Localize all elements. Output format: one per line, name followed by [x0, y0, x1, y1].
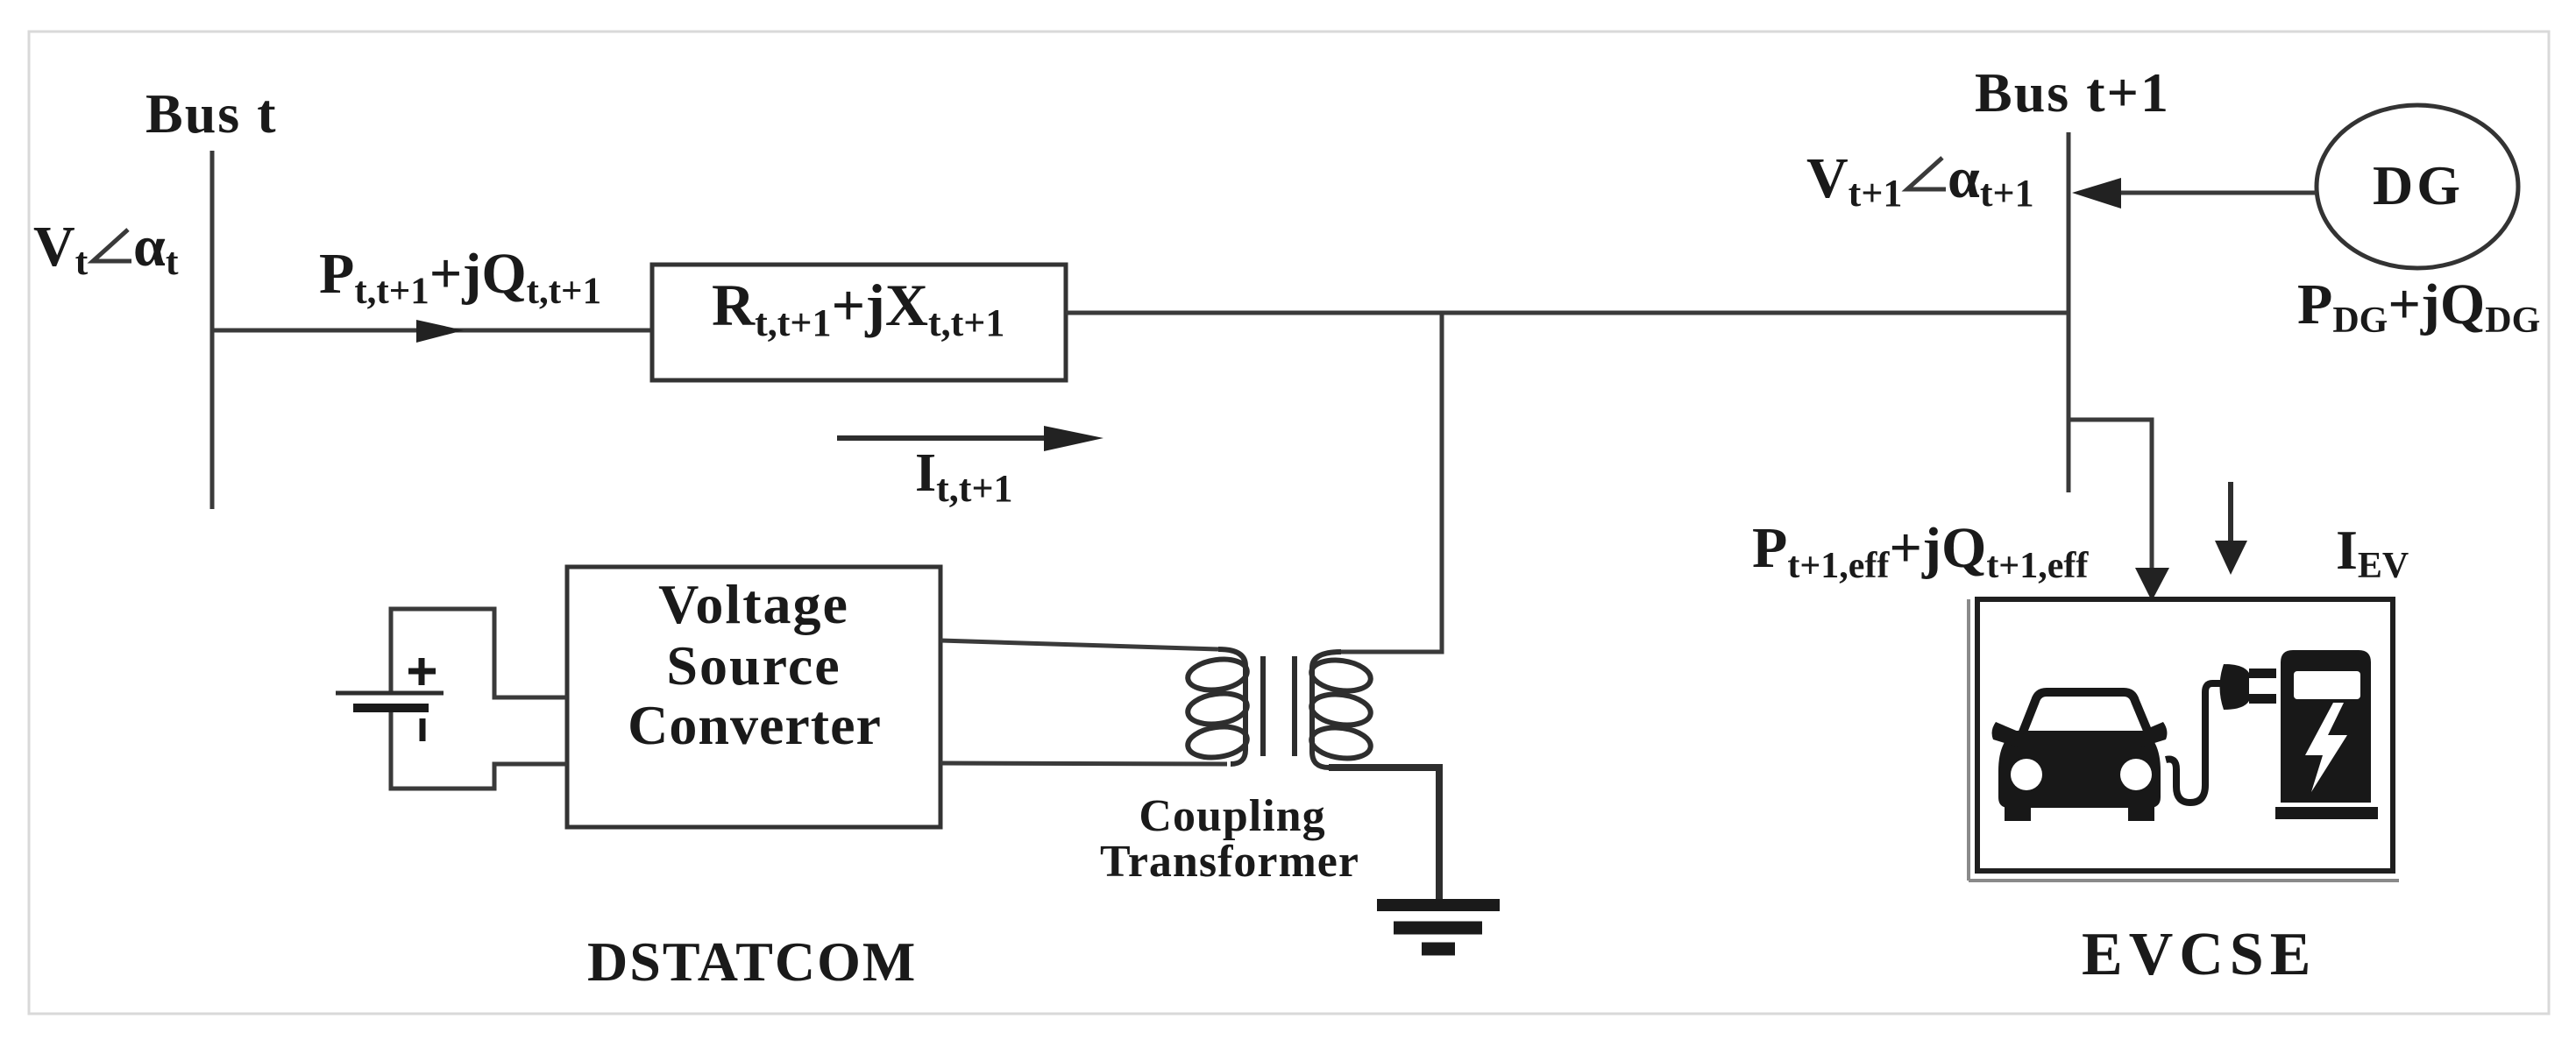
wire VSC to transformer primary bottom [940, 763, 1227, 764]
transformer core [1260, 656, 1266, 756]
wire R box to bus t+1 [1066, 311, 2069, 315]
coupling transformer T1 secondary winding [1309, 652, 1373, 768]
DG source [2317, 105, 2518, 268]
battery B1 plates [336, 691, 444, 696]
svg-text:Voltage: Voltage [658, 573, 849, 635]
bus t+1 [2067, 132, 2071, 492]
svg-text:Coupling: Coupling [1139, 791, 1325, 841]
impedance box R+jX [652, 265, 1066, 380]
wire bus t to R box [212, 329, 652, 333]
node voltage label Vt [33, 215, 179, 283]
ground [1377, 905, 1500, 949]
coupling transformer T1 primary winding [1186, 649, 1249, 764]
wire secondary to ground [1329, 768, 1439, 901]
svg-text:DG: DG [2373, 154, 2464, 216]
wire bus t+1 to EVCSE step [2069, 420, 2152, 574]
wire VSC to transformer primary top [940, 640, 1218, 649]
svg-text:Bus t: Bus t [145, 82, 278, 145]
svg-text:Source: Source [666, 634, 841, 697]
battery loop wiring [391, 609, 567, 697]
svg-text:Converter: Converter [628, 694, 882, 756]
svg-text:Bus t+1: Bus t+1 [1975, 61, 2170, 124]
EVCSE box shadow [1967, 599, 1970, 881]
current arrow I_t,t+1 [837, 435, 1047, 441]
svg-text:EVCSE: EVCSE [2082, 921, 2317, 988]
arrowhead into bus [2072, 178, 2121, 209]
EV current arrow I_EV [2228, 482, 2233, 546]
EVCSE box [1977, 599, 2393, 871]
svg-text:Transformer: Transformer [1100, 837, 1359, 887]
arrowhead into EVCSE [2135, 568, 2169, 601]
charging station [2275, 650, 2378, 819]
voltage source converter box U1 [567, 567, 940, 827]
bus t [210, 151, 215, 509]
arrowhead P flow [416, 320, 464, 343]
battery plus sign [408, 658, 436, 685]
plug [2220, 664, 2277, 710]
wire DG to bus t+1 [2095, 191, 2317, 195]
battery minus sign [420, 718, 426, 741]
EV car icon [1992, 692, 2168, 821]
wire secondary to line junction [1341, 313, 1442, 652]
svg-text:DSTATCOM: DSTATCOM [587, 930, 917, 993]
node voltage label Vt+1 [1806, 146, 2034, 215]
charging cable [2166, 683, 2229, 803]
